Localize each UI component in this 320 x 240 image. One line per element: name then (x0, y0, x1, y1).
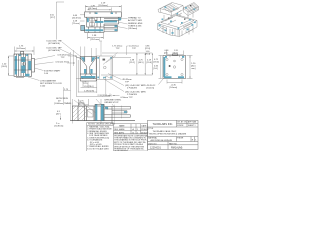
body left/front faces (158, 21, 198, 37)
svg-text:[22]: [22] (164, 52, 168, 54)
left arrow to square view bottom (113, 95, 120, 97)
leaders from left view to middle notes (35, 56, 56, 65)
inner pocket in section body (88, 110, 94, 118)
svg-text:SHEET 1: SHEET 1 (188, 125, 195, 127)
left view body (14, 52, 35, 77)
leader note: low diameter set screw (28, 77, 40, 81)
leader note: hex shaft (35, 68, 44, 71)
svg-text:[30.5]: [30.5] (2, 66, 8, 68)
svg-text:DR. BY JTC: DR. BY JTC (177, 122, 187, 124)
corner holes (166, 56, 183, 76)
svg-text:1.000: 1.000 (40, 86, 46, 88)
svg-text:[25.4]: [25.4] (145, 53, 150, 55)
top view mid slots (90, 18, 95, 26)
svg-text:DATE: DATE (142, 125, 148, 128)
right comb bars (105, 106, 131, 124)
V gap struts (171, 11, 188, 19)
svg-text:[55.6]: [55.6] (147, 62, 153, 64)
svg-text:8. DO NOT SCALE DWG: 8. DO NOT SCALE DWG (87, 147, 109, 150)
left tilted plate (160, 3, 183, 12)
deck edges on top face (161, 16, 194, 28)
cyan sections of body (81, 57, 96, 78)
svg-text:TYP: TYP (125, 82, 130, 84)
svg-text:(4 PLACES): (4 PLACES) (48, 49, 60, 52)
vertical connectors below comb (115, 105, 122, 124)
svg-text:0.50mm TYP: 0.50mm TYP (121, 97, 134, 99)
left vertical dimension (9, 56, 14, 76)
top view right leader notes (117, 19, 128, 29)
main sectioned body (80, 57, 96, 82)
dims right of center view (101, 53, 152, 75)
cyan ring section (95, 105, 108, 121)
right dim (187, 56, 193, 79)
diagonal leaders around plate (103, 53, 124, 97)
svg-text:[18.0]: [18.0] (154, 61, 160, 63)
top view mid body (87, 17, 121, 27)
hatching in section (73, 106, 86, 120)
top view lower body (85, 27, 104, 33)
dimension 2.19 [55.6mm] top (85, 5, 121, 12)
svg-text:TYP: TYP (132, 48, 137, 50)
svg-text:NAME: NAME (119, 125, 125, 128)
square body (163, 54, 186, 79)
svg-text:ACCEPT SM1: ACCEPT SM1 (128, 19, 143, 22)
svg-text:(4 PLACES): (4 PLACES) (48, 42, 60, 45)
top view left knob (81, 25, 85, 30)
top view cyan section strips mid (87, 13, 121, 23)
svg-text:THORLABS INC.: THORLABS INC. (153, 122, 174, 126)
svg-text:[9.0]: [9.0] (154, 68, 158, 70)
dim arrows top (85, 6, 121, 10)
svg-text:RM1A(/M): RM1A(/M) (171, 147, 183, 150)
top view cyan lower strip (85, 29, 103, 31)
svg-text:mm]: mm] (191, 68, 195, 70)
svg-text:1229-E01: 1229-E01 (150, 147, 161, 150)
top dim (167, 51, 184, 56)
svg-text:ORDER STOP: ORDER STOP (104, 102, 119, 104)
svg-text:THREAD TO: THREAD TO (128, 17, 141, 20)
body top face (158, 15, 198, 31)
svg-text:8/28/08: 8/28/08 (177, 125, 183, 127)
svg-text:[55.6mm]: [55.6mm] (99, 5, 109, 7)
svg-text:1: 1 (137, 129, 138, 131)
svg-text:2.19 [55.6mm]: 2.19 [55.6mm] (98, 95, 112, 97)
cyan edge strips (164, 56, 185, 78)
svg-text:FINISH: FINISH (177, 138, 184, 140)
svg-text:1.29 [32.8]: 1.29 [32.8] (84, 90, 94, 92)
phantom square plate (110, 57, 112, 78)
svg-text:[22.0]: [22.0] (145, 48, 150, 50)
svg-text:DWG. NO.: DWG. NO. (148, 143, 157, 145)
svg-text:[13.6mm]: [13.6mm] (128, 28, 138, 30)
top view bottom dimension 1.38 (88, 33, 104, 39)
svg-text:PART NO.: PART NO. (169, 142, 178, 145)
svg-text:[50.8mm]: [50.8mm] (55, 125, 64, 127)
svg-text:3/16 HEX SHAFT: 3/16 HEX SHAFT (44, 69, 61, 72)
svg-text:[3.0mm]: [3.0mm] (147, 87, 155, 89)
svg-text:TYP: TYP (116, 48, 121, 50)
dimension 1.75 above (15, 47, 35, 56)
svg-text:THORLABS CAGE ONLY,: THORLABS CAGE ONLY, (153, 130, 177, 133)
left view cyan sections (15, 55, 31, 77)
svg-text:[35.1mm]: [35.1mm] (91, 39, 101, 41)
svg-text:REV. MADE: REV. MADE (114, 128, 125, 131)
svg-text:ANODIZED ALUMINUM: ANODIZED ALUMINUM (151, 139, 173, 142)
left view small details (14, 60, 32, 78)
svg-text:NOTES: UNLESS SPECIFIED: NOTES: UNLESS SPECIFIED (88, 124, 116, 126)
svg-text:[44.5mm]: [44.5mm] (17, 48, 27, 50)
top view upper plate body (85, 12, 122, 17)
top view right rails (104, 25, 118, 31)
svg-text:[35.1]: [35.1] (130, 62, 136, 64)
svg-text:#4-40 UNC TAP: #4-40 UNC TAP (46, 46, 62, 49)
svg-text:LOW DIAMETER: LOW DIAMETER (40, 79, 57, 82)
svg-text:[16.3mm]: [16.3mm] (72, 18, 81, 20)
long vertical leader line left of top view (56, 2, 64, 40)
dims below center view (76, 57, 110, 97)
svg-text:2 PLACES: 2 PLACES (127, 87, 138, 90)
svg-text:[9.0mm]: [9.0mm] (170, 87, 178, 89)
bottom dim of square view (159, 79, 183, 85)
svg-text:0.50 [12.7mm]: 0.50 [12.7mm] (56, 62, 70, 64)
svg-text:12/10/04: 12/10/04 (141, 129, 148, 131)
proprietary paragraph (114, 134, 148, 151)
svg-text:1.10 [28.0]: 1.10 [28.0] (84, 86, 94, 88)
dims above bottom view (72, 99, 101, 106)
svg-text:APP. RAS: APP. RAS (188, 121, 197, 124)
svg-text:TELESCOPING ROTATORS & DIAGMS: TELESCOPING ROTATORS & DIAGMS (149, 133, 187, 136)
extension lines up (80, 47, 96, 57)
svg-text:[7.1mm]: [7.1mm] (72, 23, 80, 25)
svg-text:2 PLACES: 2 PLACES (127, 93, 138, 96)
svg-text:[44.5]: [44.5] (138, 62, 144, 64)
diagonal leaders crossing into section (74, 99, 104, 114)
svg-text:[45.2mm]: [45.2mm] (88, 8, 98, 10)
right tilted plate (183, 3, 199, 13)
svg-text:[12.7]: [12.7] (50, 17, 55, 19)
svg-text:TYP: TYP (61, 57, 66, 59)
svg-text:[45°]: [45°] (56, 114, 61, 116)
below baseline marks (72, 121, 101, 124)
